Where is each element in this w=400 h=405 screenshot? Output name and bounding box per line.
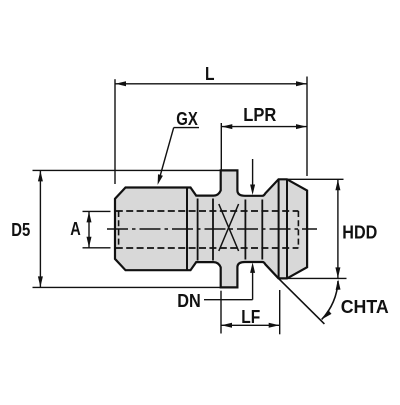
svg-text:LPR: LPR (243, 105, 276, 125)
dimension D5 extension line bottom (33, 286, 221, 288)
thread end face line (186, 188, 188, 271)
wrench flat cross X on flange (219, 204, 239, 251)
dimension LPR extension line left (220, 123, 222, 170)
dimension D5 line (39, 170, 41, 287)
dimension LF extension line right (279, 290, 281, 334)
svg-text:CHTA: CHTA (341, 297, 389, 317)
dimension HDD / CHTA base extension line bottom (279, 277, 347, 279)
dimension A extension line bottom (83, 247, 111, 249)
hidden hole end left (118, 211, 120, 248)
DN leader line (204, 299, 253, 301)
hidden hole end right (297, 211, 299, 248)
head band edge right (286, 179, 288, 278)
svg-text:L: L (205, 64, 215, 84)
hidden coolant hole top line (116, 210, 299, 212)
dimension L extension line left (114, 79, 116, 184)
dimension LF extension line left (220, 291, 222, 334)
svg-text:GX: GX (176, 109, 198, 129)
svg-text:A: A (70, 219, 81, 239)
svg-text:DN: DN (177, 291, 201, 311)
DN arrow tail top (252, 159, 254, 188)
neck tangent line left (244, 200, 246, 260)
pull stud body silhouette (115, 170, 307, 287)
dimension HDD line (337, 179, 339, 278)
dimension L line (115, 83, 307, 85)
dimension LF line (221, 324, 280, 326)
svg-text:HDD: HDD (342, 223, 377, 243)
groove tangent line right (212, 199, 214, 261)
GX leader underline (174, 127, 199, 129)
dimension L/LPR extension line right (306, 77, 308, 177)
head band edge left (278, 179, 280, 278)
CHTA angle arc (322, 281, 338, 320)
svg-text:D5: D5 (11, 220, 30, 240)
dimension LPR line (221, 126, 307, 128)
dimension HDD extension line top (287, 178, 344, 180)
CHTA chamfer angle line (279, 278, 325, 324)
groove tangent line left (197, 199, 199, 261)
dimension D5 extension line top (33, 169, 221, 171)
neck tangent line right (261, 200, 263, 260)
svg-text:LF: LF (241, 307, 260, 327)
center line (107, 228, 317, 230)
dimension A extension line top (83, 210, 111, 212)
hidden coolant hole bottom line (116, 247, 299, 249)
GX leader line (159, 128, 174, 181)
dimension A line (88, 211, 90, 247)
DN arrow tail bottom (252, 269, 254, 300)
